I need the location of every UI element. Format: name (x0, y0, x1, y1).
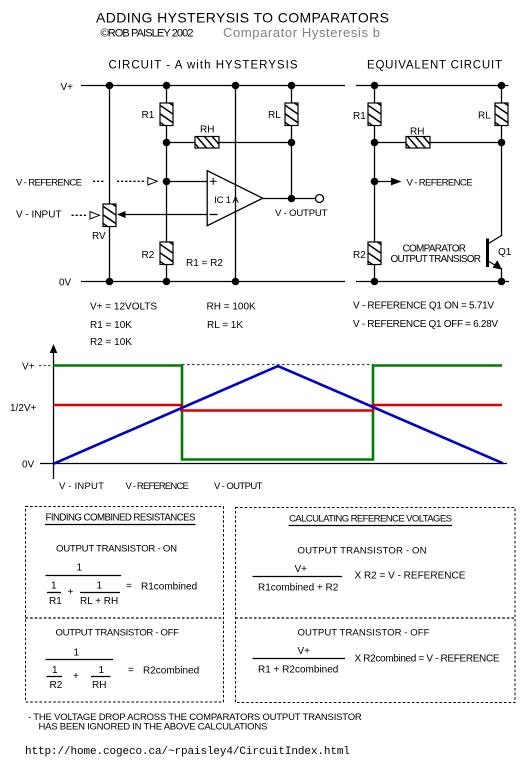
wire RL to Q1 collector (501, 126, 503, 237)
svg-text:R1 + R2combined: R1 + R2combined (258, 665, 338, 676)
op-amp plus input mark (210, 178, 217, 185)
node non-inverting input (163, 178, 171, 186)
svg-text:CIRCUIT - A with HYSTERYSIS: CIRCUIT - A with HYSTERYSIS (109, 60, 298, 72)
svg-text:OUTPUT TRANSISTOR - OFF: OUTPUT TRANSISTOR - OFF (56, 628, 180, 639)
svg-text:+: + (73, 671, 79, 682)
formula2 sub1 vinculum (47, 676, 63, 678)
wire op-amp output (263, 198, 316, 200)
op-amp IC 1 A triangle (207, 171, 263, 226)
svg-text:RH = 100K: RH = 100K (207, 302, 257, 313)
formula1 sub2 vinculum (80, 592, 120, 594)
node bottom rail at R2 column (163, 278, 171, 286)
resistor RL (285, 97, 298, 132)
svg-text:R2: R2 (50, 680, 63, 691)
node top rail at op-amp column (232, 82, 240, 90)
formula3 vinculum (253, 576, 343, 578)
filled arrowhead V-REFERENCE right (391, 178, 402, 186)
svg-text:0V: 0V (22, 460, 35, 471)
node bottom rail at R2 (371, 278, 379, 286)
svg-text:V+: V+ (61, 82, 74, 93)
svg-text:FINDING COMBINED RESISTANCES: FINDING COMBINED RESISTANCES (46, 513, 197, 524)
Q1 emitter diagonal (489, 262, 498, 268)
svg-text:V - OUTPUT: V - OUTPUT (275, 208, 328, 219)
left box divider (26, 617, 224, 619)
wire R1 to junction (374, 126, 376, 143)
wire R2 to bottom rail (374, 265, 376, 282)
svg-text:0V: 0V (59, 278, 72, 289)
svg-text:V+: V+ (295, 564, 308, 575)
svg-text:CALCULATING REFERENCE VOLTAGES: CALCULATING REFERENCE VOLTAGES (289, 514, 452, 525)
node top rail at R1 column (163, 82, 171, 90)
svg-text:COMPARATOR: COMPARATOR (403, 244, 467, 255)
wire top rail right (356, 85, 509, 87)
formula2 sub2 vinculum (91, 676, 111, 678)
formula1 sub1 vinculum (47, 592, 61, 594)
RV wiper arrow (117, 211, 126, 218)
svg-text:V - INPUT: V - INPUT (59, 481, 104, 492)
red V-REFERENCE waveform (54, 405, 503, 411)
svg-text:RL + RH: RL + RH (80, 596, 118, 607)
svg-text:V - REFERENCE: V - REFERENCE (126, 481, 190, 492)
wire top rail V+ (81, 85, 345, 87)
svg-text:V - OUTPUT: V - OUTPUT (214, 481, 263, 492)
open arrowhead V-INPUT (90, 212, 100, 219)
svg-text:HAS BEEN IGNORED IN THE ABOVE: HAS BEEN IGNORED IN THE ABOVE CALCULATIO… (39, 722, 268, 733)
svg-text:R1combined: R1combined (141, 582, 197, 593)
svg-text:RL: RL (268, 110, 281, 121)
wire op-amp supply column (235, 86, 237, 282)
svg-text:V - REFERENCE: V - REFERENCE (407, 178, 473, 189)
node top rail at RV column (106, 82, 114, 90)
Q1 collector diagonal (489, 236, 502, 244)
right box title underline (289, 525, 453, 527)
dashed lead V-INPUT (72, 214, 89, 216)
V+ tick dashes (39, 365, 52, 367)
dashed lead V-REFERENCE right (117, 180, 146, 182)
resistor R1 right (368, 97, 381, 132)
svg-text:OUTPUT TRANSISTOR - OFF: OUTPUT TRANSISTOR - OFF (298, 628, 430, 639)
svg-text:R1: R1 (142, 110, 155, 121)
wire node down to R2 (166, 143, 168, 243)
dashed lead V-REFERENCE left (93, 180, 104, 182)
resistor R2 right (368, 236, 381, 271)
resistor R1 (160, 97, 173, 132)
svg-text:1: 1 (99, 665, 105, 676)
svg-text:V+ = 12VOLTS: V+ = 12VOLTS (90, 302, 157, 313)
right box divider (236, 617, 516, 619)
node top rail at RL (498, 82, 506, 90)
formula4 vinculum (253, 658, 346, 660)
x axis (40, 463, 507, 465)
svg-text:R1 = 10K: R1 = 10K (90, 320, 132, 331)
wire R1 top lead (374, 86, 376, 104)
svg-text:V - INPUT: V - INPUT (16, 210, 62, 221)
svg-text:OUTPUT TRANSISTOR - ON: OUTPUT TRANSISTOR - ON (298, 546, 427, 557)
svg-text:OUTPUT TRANSISTOR - ON: OUTPUT TRANSISTOR - ON (56, 544, 177, 555)
svg-text:=: = (126, 581, 132, 592)
svg-text:1: 1 (74, 648, 80, 659)
svg-text:RH: RH (410, 127, 424, 138)
svg-text:R2: R2 (142, 250, 155, 261)
svg-text:RH: RH (92, 680, 106, 691)
wire V-REFERENCE arrow lead (375, 181, 394, 183)
open arrowhead V-REFERENCE (148, 178, 158, 185)
wire R1 to node (166, 126, 168, 143)
wire bottom rail right (356, 281, 509, 283)
svg-text:R2combined: R2combined (143, 666, 199, 677)
wire RV column lower (109, 227, 111, 282)
svg-text:R2 = 10K: R2 = 10K (90, 337, 132, 348)
wire RH right lead (219, 142, 292, 144)
blue V-INPUT waveform (54, 366, 504, 464)
svg-text:X R2 = V - REFERENCE: X R2 = V - REFERENCE (355, 571, 466, 582)
node RH right junction (288, 139, 296, 147)
wire RH right lead right (430, 142, 502, 144)
y axis (53, 351, 55, 479)
svg-text:EQUIVALENT CIRCUIT: EQUIVALENT CIRCUIT (367, 60, 502, 72)
wire RH left lead (167, 142, 196, 144)
node R1/RH junction (163, 139, 171, 147)
svg-text:ADDING HYSTERYSIS TO COMPARATO: ADDING HYSTERYSIS TO COMPARATORS (96, 10, 389, 26)
right dashed box (236, 508, 516, 703)
svg-text:1: 1 (97, 581, 103, 592)
node bottom rail at Q1 (498, 278, 506, 286)
op-amp minus input mark (210, 214, 218, 216)
svg-text:V - REFERENCE Q1 OFF = 6.28V: V - REFERENCE Q1 OFF = 6.28V (353, 319, 498, 330)
resistor R2 (160, 236, 173, 271)
dotted V+ level line (182, 364, 373, 366)
svg-text:RH: RH (200, 125, 214, 136)
svg-text:1/2V+: 1/2V+ (10, 403, 37, 414)
resistor RH (189, 137, 222, 149)
wire to op-amp non-inverting input (167, 181, 208, 183)
node RH/RL junction right (498, 139, 506, 147)
svg-text:V - REFERENCE: V - REFERENCE (16, 178, 82, 189)
svg-text:V+: V+ (22, 362, 35, 373)
left dashed box (26, 507, 224, 703)
wire RV wiper to op-amp inverting input (124, 214, 207, 216)
svg-text:R1: R1 (353, 111, 366, 122)
svg-text:1: 1 (77, 563, 83, 574)
svg-text:RL = 1K: RL = 1K (207, 320, 243, 331)
potentiometer RV body (103, 198, 116, 233)
wire RL down to output node (291, 126, 293, 199)
formula1 main vinculum (46, 575, 122, 577)
wire RV column upper (109, 86, 111, 205)
node top rail at RL column (288, 82, 296, 90)
Q1 emitter arrowhead (493, 260, 503, 269)
transistor Q1 base bar (486, 239, 489, 268)
svg-text:+: + (68, 587, 74, 598)
resistor RH right (400, 137, 433, 149)
svg-text:=: = (128, 665, 134, 676)
wire R2 to bottom rail (166, 265, 168, 282)
node V-REFERENCE right (371, 178, 379, 186)
wire R1 column top (166, 86, 168, 104)
svg-text:V+: V+ (298, 646, 311, 657)
svg-text:X R2combined = V - REFERENC: X R2combined = V - REFERENCE (355, 654, 500, 665)
node output junction (288, 195, 296, 203)
svg-text:R1combined + R2: R1combined + R2 (258, 583, 339, 594)
svg-text:http://home.cogeco.ca/~rpaisle: http://home.cogeco.ca/~rpaisley4/Circuit… (25, 746, 350, 758)
resistor RL right (495, 97, 508, 132)
wire RH left lead right (375, 142, 407, 144)
svg-text:R1: R1 (49, 596, 62, 607)
wire Q1 emitter to bottom rail (501, 268, 503, 282)
svg-text:R2: R2 (353, 250, 366, 261)
left box title underline (45, 524, 196, 526)
node top rail at R1 (371, 82, 379, 90)
svg-text:OUTPUT TRANSISOR: OUTPUT TRANSISOR (391, 254, 482, 265)
node bottom rail at op-amp column (232, 278, 240, 286)
wire RL top lead right (501, 86, 503, 104)
formula2 main vinculum (46, 659, 114, 661)
svg-text:Q1: Q1 (498, 247, 512, 258)
svg-text:1: 1 (52, 665, 58, 676)
svg-text:1: 1 (51, 581, 57, 592)
green V-OUTPUT waveform (54, 366, 503, 460)
terminal V-OUTPUT open circle (316, 195, 324, 203)
svg-text:©ROB PAISLEY 2002: ©ROB PAISLEY 2002 (101, 28, 194, 40)
svg-text:RV: RV (92, 231, 106, 242)
svg-text:V - REFERENCE Q1 ON = 5.71V: V - REFERENCE Q1 ON = 5.71V (353, 301, 494, 312)
svg-text:IC 1 A: IC 1 A (214, 195, 239, 206)
wire bottom rail 0V (81, 281, 345, 283)
y axis arrowhead (50, 344, 58, 353)
node R1/RH junction right (371, 139, 379, 147)
svg-text:Comparator Hysteresis b: Comparator Hysteresis b (223, 25, 380, 40)
wire RL column top (291, 86, 293, 104)
svg-text:RL: RL (478, 111, 491, 122)
node bottom rail at RV column (106, 278, 114, 286)
svg-text:R1 = R2: R1 = R2 (186, 258, 223, 269)
wire divider column (374, 143, 376, 243)
